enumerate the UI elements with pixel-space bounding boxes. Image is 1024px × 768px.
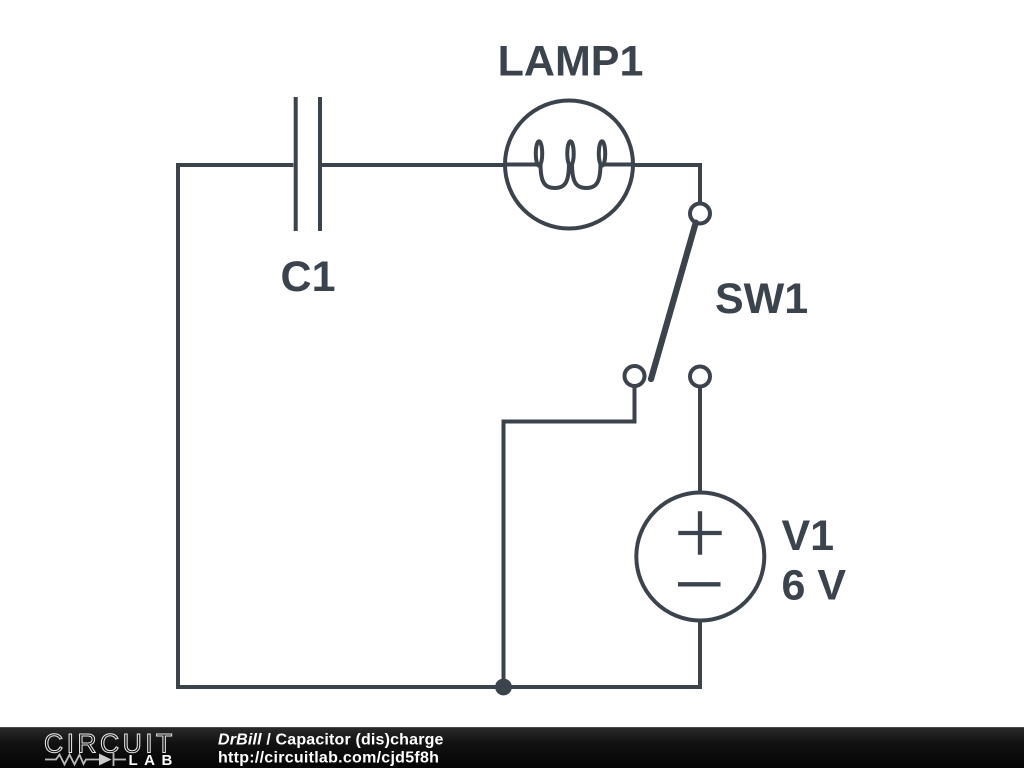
svg-text:http://circuitlab.com/cjd5f8h: http://circuitlab.com/cjd5f8h: [218, 749, 439, 766]
svg-text:C1: C1: [281, 253, 336, 301]
svg-text:LAB: LAB: [129, 752, 179, 768]
svg-text:DrBill / Capacitor (dis)charge: DrBill / Capacitor (dis)charge: [218, 732, 444, 749]
svg-text:LAMP1: LAMP1: [498, 38, 644, 86]
svg-text:SW1: SW1: [715, 275, 808, 323]
svg-text:6 V: 6 V: [782, 561, 847, 609]
svg-text:V1: V1: [782, 512, 835, 560]
